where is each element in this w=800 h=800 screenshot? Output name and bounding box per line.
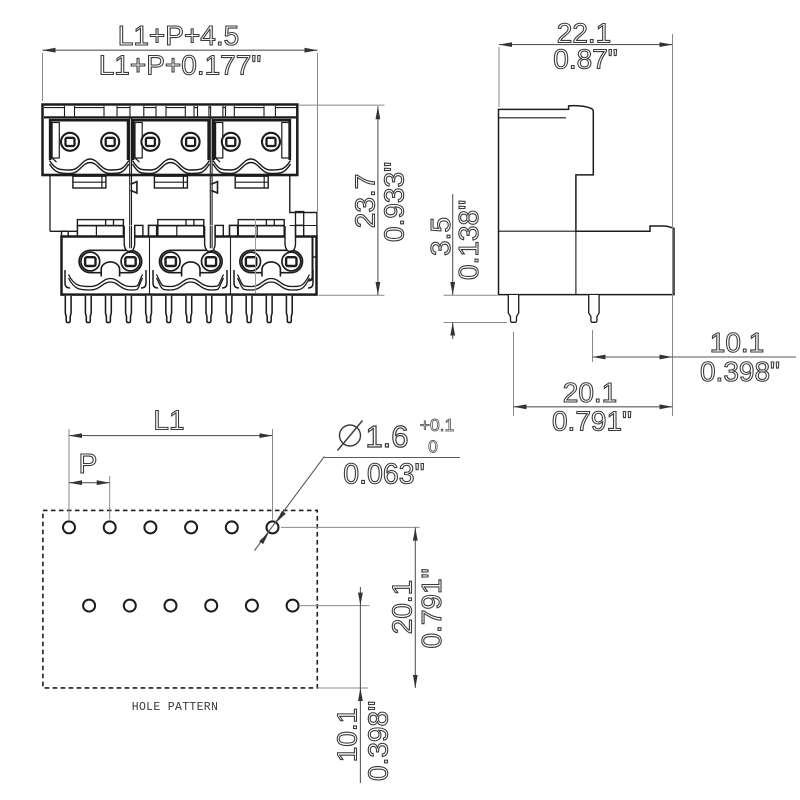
extension line 23.7 bottom xyxy=(319,294,385,296)
svg-text:10.1: 10.1 xyxy=(332,708,363,763)
dimension line 20.1 vertical xyxy=(414,527,416,688)
svg-text:0: 0 xyxy=(428,437,438,457)
side view inner vertical line xyxy=(575,231,577,294)
funnel channel xyxy=(285,226,296,251)
upper module 2 cavity frame xyxy=(133,120,209,160)
lower terminal screw slot 2 xyxy=(125,257,135,266)
side view pins xyxy=(508,295,518,322)
mid-zone left step edge xyxy=(49,176,51,231)
upper terminal screw slot 1 xyxy=(66,138,75,146)
upper terminal circle 2 xyxy=(101,133,119,151)
extension line 3.5 bottom xyxy=(444,322,507,324)
upper module boundary lines with latch hook xyxy=(129,118,131,226)
upper module 1 cavity frame xyxy=(50,120,128,160)
hole top row 2 xyxy=(104,521,116,533)
svg-text:23.7: 23.7 xyxy=(350,174,381,229)
svg-text:0.933": 0.933" xyxy=(379,162,410,242)
diameter symbol xyxy=(340,425,361,446)
extension line 23.7 top xyxy=(299,104,385,106)
upper module 3 scallop wave xyxy=(213,159,291,170)
lower terminal circle 3 xyxy=(161,252,180,271)
front view upper body outline xyxy=(43,105,298,176)
side view inner mid line xyxy=(499,230,576,232)
extension line pin2 center xyxy=(592,330,594,362)
hole top row 3 xyxy=(144,521,156,533)
leader line hole diameter xyxy=(255,456,325,550)
svg-text:3.5: 3.5 xyxy=(425,217,456,256)
dimension line 22.1 xyxy=(499,44,673,46)
svg-text:1.6: 1.6 xyxy=(365,419,408,454)
upper terminal circle 1 xyxy=(61,133,79,151)
lower terminal circle 2 xyxy=(121,252,140,271)
upper terminal screw slot 2 xyxy=(106,138,115,146)
svg-text:0.791": 0.791" xyxy=(552,406,632,437)
svg-text:+0.1: +0.1 xyxy=(420,415,455,435)
dimension line 10.1 xyxy=(593,356,797,358)
lower module boundary line xyxy=(149,237,151,294)
upper terminal circle 6 xyxy=(262,133,280,151)
lower terminal screw slot 5 xyxy=(246,257,256,266)
upper terminal screw slot 6 xyxy=(267,138,276,146)
extension line L1 left xyxy=(68,429,70,520)
svg-text:10.1: 10.1 xyxy=(710,327,765,358)
lower terminal screw slot 1 xyxy=(85,257,95,266)
funnel channel xyxy=(205,226,216,251)
funnel channel xyxy=(124,226,135,251)
lower terminal circle 4 xyxy=(202,252,221,271)
svg-text:L1+P+0.177": L1+P+0.177" xyxy=(99,50,262,81)
dimension line 20.1 xyxy=(514,406,673,408)
svg-text:0.87": 0.87" xyxy=(553,44,617,75)
lower terminal circle 6 xyxy=(282,252,301,271)
hole bottom row 6 xyxy=(287,600,299,612)
hole bottom row 5 xyxy=(246,600,258,612)
upper module 1 left bar xyxy=(52,123,59,159)
lower terminal circle 5 xyxy=(242,252,261,271)
upper terminal screw slot 5 xyxy=(226,138,235,146)
upper terminal screw slot 4 xyxy=(186,138,195,146)
extension line L1 right xyxy=(272,429,274,520)
upper terminal circle 4 xyxy=(182,133,200,151)
extension line top hole row xyxy=(281,526,420,528)
upper body top strip inner edge xyxy=(44,107,296,109)
svg-text:HOLE PATTERN: HOLE PATTERN xyxy=(132,701,218,714)
tabs above lower modules xyxy=(77,220,123,226)
lower body left corner block xyxy=(62,231,69,236)
extension line right xyxy=(317,53,319,226)
upper module 3 cavity frame xyxy=(214,120,290,160)
upper terminal circle 3 xyxy=(141,133,159,151)
svg-text:P: P xyxy=(79,448,98,479)
extension line 22.1 right / 10.1 20.1 xyxy=(672,34,674,416)
dimension line 10.1 vertical xyxy=(359,587,361,783)
extension line left xyxy=(42,53,44,101)
svg-text:0.791": 0.791" xyxy=(416,568,447,648)
front view lower body outline xyxy=(62,237,317,295)
extension line P right xyxy=(109,476,111,520)
polarization slots in top strip xyxy=(65,106,75,116)
extension line 3.5 top xyxy=(444,294,498,296)
upper module 1 scallop wave xyxy=(50,159,129,170)
svg-text:0.398": 0.398" xyxy=(363,701,394,781)
svg-text:0.063": 0.063" xyxy=(343,459,424,491)
upper terminal screw slot 3 xyxy=(146,138,155,146)
upper module 3 left bar xyxy=(216,123,223,159)
raised box beside module 3 funnel xyxy=(296,212,304,226)
extension line bottom edge xyxy=(318,687,369,689)
lower module 3 scallop wave xyxy=(238,275,310,287)
upper terminal circle 5 xyxy=(222,133,240,151)
svg-text:20.1: 20.1 xyxy=(387,580,418,635)
tabs below upper modules xyxy=(73,176,106,188)
faint internal edge line xyxy=(255,219,257,294)
lower module boundary line xyxy=(230,237,232,294)
hole bottom row 2 xyxy=(124,600,136,612)
lower terminal screw slot 4 xyxy=(206,257,216,266)
lower modules: dumbbell terminal pairs xyxy=(79,250,142,272)
svg-text:L1+P+4.5: L1+P+4.5 xyxy=(118,20,239,51)
upper body right bar xyxy=(282,123,289,159)
upper module 2 left bar xyxy=(135,123,142,159)
upper body bottom edge xyxy=(43,174,298,176)
lower terminal circle 1 xyxy=(81,252,100,271)
solder pins (12) xyxy=(65,296,71,323)
hole pattern dashed outline xyxy=(43,510,317,688)
dimension line L1 xyxy=(69,435,273,437)
hole top row 4 xyxy=(185,521,197,533)
svg-text:L1: L1 xyxy=(153,405,184,436)
extension line bottom hole row xyxy=(299,605,369,607)
hole top row 6 xyxy=(267,521,279,533)
upper body top strip bottom edge xyxy=(44,116,296,118)
dimension line 23.7 xyxy=(377,106,379,295)
side view outline xyxy=(499,106,675,295)
boundary guide lines inside funnels xyxy=(129,226,131,249)
svg-text:0.398": 0.398" xyxy=(700,356,780,387)
hole top row 5 xyxy=(226,521,238,533)
side view inner top line xyxy=(499,117,567,119)
hole bottom row 4 xyxy=(205,600,217,612)
lower module 1 scallop wave xyxy=(69,275,143,287)
upper module 2 scallop wave xyxy=(132,159,209,170)
hole bottom row 1 xyxy=(83,600,95,612)
extension line pin1 center xyxy=(513,332,515,416)
lower terminal screw slot 6 xyxy=(286,257,296,266)
extension line 22.1 left xyxy=(498,47,500,107)
dimension line P xyxy=(69,482,110,484)
dimension line L1+P+4.5 xyxy=(43,49,318,51)
svg-text:0.138": 0.138" xyxy=(453,200,484,280)
svg-text:20.1: 20.1 xyxy=(563,377,618,408)
lower module corner fillets xyxy=(65,270,70,288)
dimension line 3.5 xyxy=(452,194,454,295)
hole top row 1 xyxy=(63,521,75,533)
mid-zone right step and tall corner block xyxy=(290,176,317,237)
boundary blocks above lower row xyxy=(149,225,157,236)
lower body right inner frame xyxy=(309,237,313,281)
upper module boundary lines with latch hook xyxy=(209,118,211,226)
lower terminal screw slot 3 xyxy=(166,257,176,266)
fraction bar xyxy=(325,457,461,459)
hole bottom row 3 xyxy=(165,600,177,612)
lower module 2 scallop wave xyxy=(157,275,224,287)
